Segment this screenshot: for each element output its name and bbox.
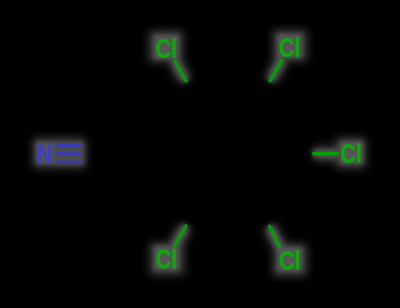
bond C4-Cl bottom-right (green half-bond) <box>270 226 280 246</box>
bond C3-Cl right (green half-bond) <box>314 152 338 155</box>
svg-text:N: N <box>37 140 52 169</box>
svg-text:Cl: Cl <box>155 34 176 63</box>
bond C5-Cl bottom-left (green half-bond) <box>175 226 186 246</box>
svg-text:Cl: Cl <box>279 33 300 62</box>
bond C2-Cl top-right (green half-bond) <box>270 60 282 80</box>
svg-text:Cl: Cl <box>340 139 361 168</box>
bond C1-Cl top-left (green half-bond) <box>175 61 187 81</box>
svg-text:Cl: Cl <box>156 245 177 274</box>
svg-text:Cl: Cl <box>279 246 300 275</box>
nitrile triple bond C#N (blue half, three parallel lines) <box>55 146 81 163</box>
jpeg-artifact halos (blocky gray smear behind inked elements) <box>33 30 366 276</box>
